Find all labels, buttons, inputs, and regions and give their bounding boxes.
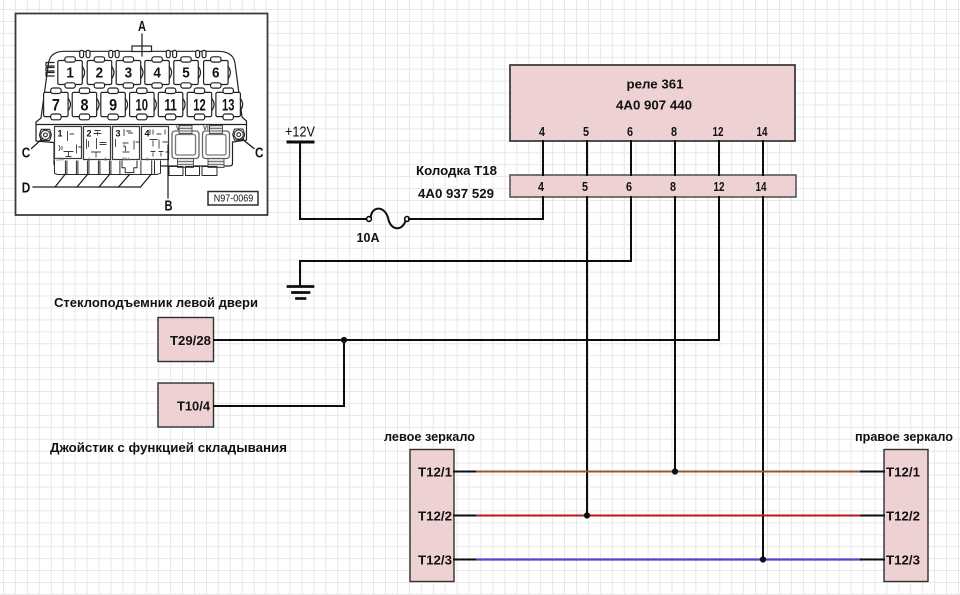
wire relay pin 8 to T18 pin 8: [674, 141, 676, 175]
wire left mirror T12/1 stub: [454, 471, 477, 473]
wire +12V down: [299, 143, 301, 219]
right tab 3: [202, 167, 217, 176]
pull tab: [122, 161, 137, 173]
callout leader D diagonal 2: [77, 175, 88, 188]
svg-text:1: 1: [58, 129, 63, 139]
svg-text:7: 7: [52, 95, 60, 114]
wire ground run: [300, 260, 631, 262]
svg-text:10А: 10А: [357, 230, 381, 245]
svg-text:11: 11: [164, 95, 177, 114]
svg-text:12: 12: [193, 95, 206, 114]
svg-text:C: C: [255, 146, 264, 162]
svg-text:Т12/1: Т12/1: [418, 465, 452, 480]
callout leader D diagonal 4: [119, 175, 130, 188]
socket 11: [158, 92, 183, 116]
right cells: [141, 161, 155, 174]
svg-text:правое зеркало: правое зеркало: [855, 429, 953, 444]
svg-text:Т12/3: Т12/3: [418, 553, 452, 568]
svg-text:6: 6: [627, 124, 633, 139]
svg-text:15A: 15A: [56, 156, 65, 161]
wire right mirror T12/1 stub: [861, 471, 884, 473]
svg-text:B: B: [165, 199, 173, 215]
svg-text:Т12/1: Т12/1: [886, 465, 920, 480]
svg-text:4: 4: [153, 65, 161, 81]
svg-text:5: 5: [582, 179, 588, 194]
mount ear left: [39, 129, 51, 140]
wire relay pin 4 to T18 pin 4: [542, 141, 544, 175]
svg-text:4: 4: [145, 129, 150, 139]
svg-text:14: 14: [757, 124, 769, 139]
svg-text:+12V: +12V: [285, 124, 315, 141]
callout leader B: [167, 145, 169, 198]
figure number box N97-0069: [208, 192, 258, 206]
svg-text:12: 12: [714, 179, 725, 194]
svg-text:13: 13: [222, 95, 235, 114]
fuse F1 element: [371, 209, 406, 229]
svg-text:10: 10: [136, 95, 149, 114]
junction node T29/28 branch: [341, 337, 347, 343]
wire T29/28 to T18 pin 12: [214, 339, 719, 341]
callout leader D diagonal 3: [99, 175, 110, 188]
svg-text:VII: VII: [203, 126, 211, 132]
fuse panel body outline: [36, 51, 247, 166]
svg-text:14: 14: [756, 179, 768, 194]
mount ear right: [233, 129, 245, 140]
callout leader D diagonal 1: [55, 175, 65, 188]
fuse F1 right terminal: [405, 217, 410, 222]
wire fuse to T18 pin 4: [409, 218, 543, 220]
callout leader D horizontal: [33, 186, 141, 188]
socket 12: [187, 92, 212, 116]
socket 8: [72, 92, 97, 116]
svg-text:Т12/2: Т12/2: [886, 509, 920, 524]
wire relay pin 5 to T18 pin 5: [586, 141, 588, 175]
right mirror connector box: [884, 450, 928, 582]
relay position labels V VII: [176, 126, 211, 132]
svg-text:N97-0069: N97-0069: [214, 193, 254, 204]
fuse terminal strip: [55, 161, 218, 176]
wire up into T18 pin 4: [542, 197, 544, 219]
svg-text:4: 4: [539, 124, 546, 139]
svg-text:9: 9: [109, 95, 117, 114]
wire right mirror T12/3 stub: [861, 559, 884, 561]
svg-text:D: D: [22, 181, 31, 197]
connector X1 "Колодка T18" strip: [510, 175, 796, 197]
svg-text:1: 1: [66, 65, 74, 81]
svg-text:5: 5: [182, 65, 190, 81]
wire T18 pin 12 down: [718, 197, 720, 340]
svg-text:2: 2: [96, 65, 104, 81]
svg-text:левое зеркало: левое зеркало: [384, 429, 475, 444]
junction node on brown wire: [672, 468, 678, 474]
panel left side connector tabs: [46, 63, 54, 77]
wire brown mirror line: [477, 471, 861, 473]
relay module 1: [55, 127, 82, 159]
wire left mirror T12/2 stub: [454, 515, 477, 517]
socket 9: [101, 92, 126, 116]
svg-text:A: A: [138, 19, 146, 35]
svg-text:реле 361: реле 361: [627, 77, 684, 92]
svg-text:Стеклоподъемник левой двери: Стеклоподъемник левой двери: [54, 295, 258, 310]
wire red mirror line: [477, 515, 861, 517]
wire T10/4 run: [214, 405, 344, 407]
wire relay pin 6 to T18 pin 6: [630, 141, 632, 175]
panel top locating bumps: [80, 46, 206, 58]
+12V supply bar: [288, 141, 313, 144]
svg-text:8: 8: [81, 95, 89, 114]
right tab 2: [186, 167, 200, 176]
terminal cells: [65, 161, 120, 174]
svg-text:4: 4: [538, 179, 545, 194]
callout leader C left: [32, 139, 43, 149]
connector T29/28 box: [158, 318, 214, 362]
socket row 2: [44, 88, 243, 120]
svg-text:5: 5: [583, 124, 589, 139]
relay U1 "реле 361" box: [510, 65, 795, 141]
socket 13: [216, 92, 241, 116]
junction node on red wire: [584, 512, 590, 518]
ground symbol: [288, 287, 313, 299]
wire T18 pin 8 down to brown wire: [674, 197, 676, 472]
svg-text:Т12/3: Т12/3: [886, 553, 920, 568]
socket 3: [116, 61, 141, 85]
wire +12V to fuse: [300, 218, 366, 220]
right tab 1: [169, 167, 183, 176]
callout leader A: [141, 34, 143, 56]
svg-text:8: 8: [671, 124, 677, 139]
svg-text:Т12/2: Т12/2: [418, 509, 452, 524]
svg-text:3: 3: [116, 129, 121, 139]
svg-text:Колодка Т18: Колодка Т18: [416, 163, 497, 178]
socket 2: [87, 61, 112, 85]
socket 7: [44, 92, 69, 116]
svg-text:Джойстик с функцией складывани: Джойстик с функцией складывания: [50, 440, 287, 455]
socket row 1: [58, 57, 231, 88]
wire T18 pin 5 down to red wire: [586, 197, 588, 516]
wire right mirror T12/2 stub: [861, 515, 884, 517]
relay module 2: [84, 127, 111, 160]
socket row 2 numbers: [52, 95, 235, 114]
svg-text:30A: 30A: [122, 156, 131, 161]
socket 5: [174, 61, 199, 85]
wire ground drop: [299, 261, 301, 286]
wire branch down to T10/4 run: [343, 340, 345, 406]
svg-text:V: V: [176, 126, 180, 132]
socket 4: [145, 61, 170, 85]
svg-text:12: 12: [713, 124, 724, 139]
socket 10: [130, 92, 155, 116]
fuse F1 left terminal: [367, 217, 372, 222]
wire relay pin 14 to T18 pin 14: [762, 141, 764, 175]
svg-text:2: 2: [87, 129, 92, 139]
wire relay pin 12 to T18 pin 12: [718, 141, 720, 175]
relay module 3: [113, 127, 140, 160]
relay module 4: [142, 127, 170, 160]
wire T18 pin 6 down: [630, 197, 632, 261]
svg-text:Т29/28: Т29/28: [170, 333, 211, 348]
panel section divider: [36, 124, 247, 126]
svg-text:3: 3: [125, 65, 133, 81]
left mirror connector box: [410, 450, 454, 582]
callout leader D diagonal 5: [141, 175, 152, 188]
svg-text:8: 8: [670, 179, 676, 194]
callout leader C right: [242, 139, 255, 149]
socket 1: [58, 61, 83, 85]
wire T18 pin 14 down to blue wire: [762, 197, 764, 560]
relay V: [172, 126, 199, 168]
svg-text:C: C: [22, 146, 31, 162]
fuse panel figure frame: [16, 14, 268, 216]
relay VII: [203, 126, 230, 168]
junction node on blue wire: [760, 556, 766, 562]
panel top center tab: [132, 46, 152, 52]
wire blue mirror line: [477, 558, 861, 560]
svg-text:6: 6: [212, 65, 220, 81]
svg-text:6: 6: [626, 179, 632, 194]
fuse rating band labels: [56, 156, 149, 161]
socket 6: [204, 61, 229, 85]
socket row 1 numbers: [66, 65, 219, 81]
svg-text:4А0 907 440: 4А0 907 440: [616, 98, 692, 113]
svg-text:Т10/4: Т10/4: [177, 399, 211, 414]
svg-text:4А0 937 529: 4А0 937 529: [418, 186, 494, 201]
wire left mirror T12/3 stub: [454, 559, 477, 561]
connector T10/4 box: [158, 383, 214, 427]
